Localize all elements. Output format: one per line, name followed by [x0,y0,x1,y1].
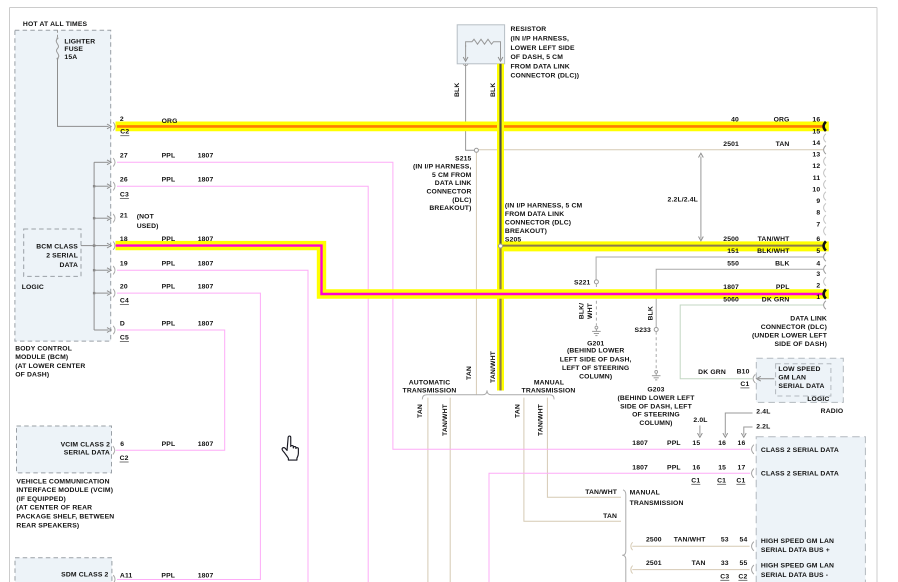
svg-text:(UNDER LOWER LEFT: (UNDER LOWER LEFT [752,332,828,339]
svg-text:CONNECTOR: CONNECTOR [426,189,471,196]
svg-text:TAN/WHT: TAN/WHT [758,236,791,243]
svg-text:G201: G201 [587,340,604,347]
svg-text:TAN: TAN [776,141,790,148]
svg-text:(IF EQUIPPED): (IF EQUIPPED) [16,496,66,503]
svg-text:TRANSMISSION: TRANSMISSION [403,387,457,394]
svg-text:ORG: ORG [162,118,178,125]
svg-text:USED): USED) [137,223,159,230]
svg-text:2: 2 [816,282,820,289]
svg-text:SERIAL DATA: SERIAL DATA [64,450,110,457]
svg-text:C1: C1 [740,381,749,388]
svg-text:13: 13 [812,152,820,159]
svg-text:7: 7 [816,221,820,228]
svg-text:C2: C2 [738,573,747,580]
svg-text:40: 40 [731,116,739,123]
svg-text:(IN I/P HARNESS,: (IN I/P HARNESS, [511,36,570,43]
svg-text:S205: S205 [505,236,522,243]
svg-text:1807: 1807 [198,441,214,448]
svg-text:TRANSMISSION: TRANSMISSION [522,387,576,394]
svg-text:54: 54 [740,537,748,544]
svg-text:SERIAL DATA: SERIAL DATA [778,383,824,390]
svg-text:1807: 1807 [632,440,648,447]
svg-text:VCIM CLASS 2: VCIM CLASS 2 [61,441,110,448]
svg-text:C2: C2 [120,129,129,136]
svg-text:55: 55 [740,560,748,567]
svg-text:1807: 1807 [198,236,214,243]
svg-text:CLASS 2 SERIAL DATA: CLASS 2 SERIAL DATA [761,470,839,477]
svg-text:CLASS 2 SERIAL DATA: CLASS 2 SERIAL DATA [761,447,839,454]
svg-text:1807: 1807 [198,153,214,160]
svg-text:PPL: PPL [162,177,176,184]
svg-text:FROM DATA LINK: FROM DATA LINK [511,63,570,70]
svg-text:550: 550 [727,260,739,267]
svg-text:PPL: PPL [162,261,176,268]
svg-text:COLUMN): COLUMN) [579,374,612,381]
svg-text:C3: C3 [720,573,729,580]
svg-text:BLK/: BLK/ [579,303,586,319]
svg-text:TAN: TAN [466,366,473,380]
svg-text:33: 33 [721,560,729,567]
svg-text:15: 15 [692,440,700,447]
svg-text:MANUAL: MANUAL [630,490,660,497]
svg-text:TRANSMISSION: TRANSMISSION [630,500,684,507]
svg-text:2.4L: 2.4L [756,409,770,416]
svg-text:2500: 2500 [723,236,739,243]
svg-text:18: 18 [120,236,128,243]
svg-text:BLK: BLK [454,83,461,97]
svg-text:1807: 1807 [198,284,214,291]
svg-text:(BEHIND LOWER LEFT: (BEHIND LOWER LEFT [617,395,695,402]
svg-text:D: D [120,321,125,328]
svg-text:16: 16 [812,117,820,124]
svg-text:C3: C3 [120,192,129,199]
svg-text:GM LAN: GM LAN [778,374,806,381]
svg-text:1: 1 [816,294,820,301]
svg-text:WHT: WHT [587,302,594,319]
svg-text:1807: 1807 [198,261,214,268]
svg-text:HIGH SPEED GM LAN: HIGH SPEED GM LAN [761,538,834,545]
svg-text:SDM CLASS 2: SDM CLASS 2 [61,572,108,579]
svg-text:RESISTOR: RESISTOR [511,26,547,33]
svg-text:LEFT SIDE OF DASH,: LEFT SIDE OF DASH, [560,356,632,363]
svg-text:2501: 2501 [646,560,662,567]
svg-text:HOT AT ALL TIMES: HOT AT ALL TIMES [23,21,88,28]
svg-text:B10: B10 [737,369,750,376]
svg-text:BLK/WHT: BLK/WHT [757,248,790,255]
svg-text:PPL: PPL [162,321,176,328]
svg-text:(BEHIND LOWER: (BEHIND LOWER [567,348,624,355]
svg-text:SIDE OF DASH): SIDE OF DASH) [774,341,827,348]
svg-text:C1: C1 [691,477,700,484]
svg-text:G203: G203 [647,387,664,394]
svg-text:BCM CLASS: BCM CLASS [36,243,78,250]
svg-text:OF DASH, 5 CM: OF DASH, 5 CM [511,54,564,61]
svg-text:TAN: TAN [692,560,706,567]
svg-text:15A: 15A [64,54,77,61]
svg-text:C1: C1 [717,477,726,484]
svg-text:ORG: ORG [774,116,790,123]
svg-text:TAN/WHT: TAN/WHT [674,537,707,544]
svg-text:5 CM FROM: 5 CM FROM [432,172,472,179]
svg-text:9: 9 [816,198,820,205]
svg-text:SIDE OF DASH, LEFT: SIDE OF DASH, LEFT [620,403,693,410]
svg-text:C5: C5 [120,335,129,342]
svg-text:6: 6 [816,236,820,243]
svg-text:1807: 1807 [198,573,214,580]
svg-text:OF DASH): OF DASH) [15,371,49,378]
svg-text:1807: 1807 [723,284,739,291]
svg-text:PPL: PPL [162,153,176,160]
svg-text:2501: 2501 [723,141,739,148]
svg-text:C1: C1 [736,477,745,484]
svg-text:2.2L/2.4L: 2.2L/2.4L [668,196,698,203]
svg-text:26: 26 [120,177,128,184]
svg-text:MODULE (BCM): MODULE (BCM) [15,354,68,361]
svg-text:(IN I/P HARNESS, 5 CM: (IN I/P HARNESS, 5 CM [505,202,583,209]
svg-text:21: 21 [120,213,128,220]
svg-text:PPL: PPL [667,440,681,447]
svg-text:LEFT OF STEERING: LEFT OF STEERING [562,365,629,372]
svg-text:CONNECTOR (DLC): CONNECTOR (DLC) [761,324,827,331]
svg-text:BREAKOUT): BREAKOUT) [505,228,547,235]
svg-text:DATA: DATA [60,262,78,269]
svg-text:SERIAL DATA BUS +: SERIAL DATA BUS + [761,547,830,554]
svg-text:BLK: BLK [647,306,654,320]
svg-text:(DLC): (DLC) [452,197,471,204]
svg-text:PPL: PPL [162,236,176,243]
svg-text:14: 14 [812,140,820,147]
svg-text:53: 53 [721,537,729,544]
svg-text:BODY CONTROL: BODY CONTROL [15,345,72,352]
svg-text:FUSE: FUSE [64,46,83,53]
svg-text:S221: S221 [574,279,591,286]
svg-text:DATA LINK: DATA LINK [790,315,827,322]
svg-text:16: 16 [738,440,746,447]
svg-text:LOGIC: LOGIC [807,396,829,403]
svg-text:(AT LOWER CENTER: (AT LOWER CENTER [15,363,85,370]
svg-text:PPL: PPL [667,465,681,472]
svg-text:6: 6 [120,441,124,448]
svg-text:2.2L: 2.2L [756,424,770,431]
svg-text:20: 20 [120,284,128,291]
svg-text:CONNECTOR (DLC)): CONNECTOR (DLC)) [511,73,580,80]
svg-text:DK GRN: DK GRN [762,297,790,304]
svg-text:DATA LINK: DATA LINK [435,180,472,187]
svg-text:2: 2 [120,116,124,123]
svg-text:5: 5 [816,248,820,255]
svg-text:1807: 1807 [198,177,214,184]
svg-text:3: 3 [816,271,820,278]
svg-text:(NOT: (NOT [137,213,155,220]
svg-text:OF STEERING: OF STEERING [632,412,680,419]
svg-text:BLK: BLK [490,83,497,97]
svg-text:151: 151 [727,248,739,255]
svg-text:FROM DATA LINK: FROM DATA LINK [505,211,564,218]
svg-text:2.0L: 2.0L [693,417,707,424]
svg-text:LOWER LEFT SIDE: LOWER LEFT SIDE [511,45,575,52]
svg-text:15: 15 [812,128,820,135]
svg-text:PPL: PPL [162,284,176,291]
svg-text:PPL: PPL [161,573,175,580]
svg-text:TAN: TAN [603,513,617,520]
svg-text:TAN/WHT: TAN/WHT [585,489,618,496]
svg-text:1807: 1807 [632,465,648,472]
svg-text:5060: 5060 [723,297,739,304]
svg-text:SERIAL DATA BUS -: SERIAL DATA BUS - [761,572,828,579]
svg-text:HIGH SPEED GM LAN: HIGH SPEED GM LAN [761,563,834,570]
svg-text:1807: 1807 [198,321,214,328]
svg-text:17: 17 [738,465,746,472]
svg-text:LOW SPEED: LOW SPEED [778,366,820,373]
svg-text:15: 15 [718,465,726,472]
svg-text:LOGIC: LOGIC [22,284,44,291]
svg-text:CONNECTOR (DLC): CONNECTOR (DLC) [505,219,571,226]
svg-text:TAN/WHT: TAN/WHT [442,403,449,436]
svg-text:(IN I/P HARNESS,: (IN I/P HARNESS, [413,164,472,171]
svg-text:19: 19 [120,261,128,268]
svg-text:2500: 2500 [646,537,662,544]
svg-text:16: 16 [718,440,726,447]
svg-text:AUTOMATIC: AUTOMATIC [409,379,451,386]
svg-text:S233: S233 [635,327,652,334]
svg-text:BREAKOUT): BREAKOUT) [429,205,471,212]
svg-text:27: 27 [120,153,128,160]
svg-text:TAN: TAN [514,404,521,418]
svg-text:LIGHTER: LIGHTER [64,38,95,45]
svg-text:PPL: PPL [776,284,790,291]
svg-text:INTERFACE MODULE (VCIM): INTERFACE MODULE (VCIM) [16,487,113,494]
svg-text:12: 12 [812,163,820,170]
svg-text:C4: C4 [120,298,129,305]
svg-text:TAN/WHT: TAN/WHT [538,403,545,436]
svg-text:8: 8 [816,210,820,217]
svg-text:VEHICLE COMMUNICATION: VEHICLE COMMUNICATION [16,478,109,485]
svg-text:(AT CENTER OF REAR: (AT CENTER OF REAR [16,505,92,512]
svg-text:16: 16 [692,465,700,472]
svg-text:C2: C2 [120,455,129,462]
svg-text:RADIO: RADIO [821,408,844,415]
svg-text:BLK: BLK [775,260,789,267]
svg-text:DK GRN: DK GRN [698,369,726,376]
svg-text:PPL: PPL [162,441,176,448]
svg-text:TAN/WHT: TAN/WHT [490,350,497,383]
svg-text:PACKAGE SHELF, BETWEEN: PACKAGE SHELF, BETWEEN [16,514,114,521]
svg-text:2 SERIAL: 2 SERIAL [46,252,78,259]
svg-text:10: 10 [812,186,820,193]
svg-text:S215: S215 [455,155,472,162]
svg-text:REAR SPEAKERS): REAR SPEAKERS) [16,522,79,529]
svg-text:11: 11 [813,175,821,182]
svg-text:A11: A11 [120,573,133,580]
svg-text:TAN: TAN [417,404,424,418]
svg-text:4: 4 [816,261,820,268]
svg-text:COLUMN): COLUMN) [639,420,672,427]
svg-text:MANUAL: MANUAL [534,379,564,386]
